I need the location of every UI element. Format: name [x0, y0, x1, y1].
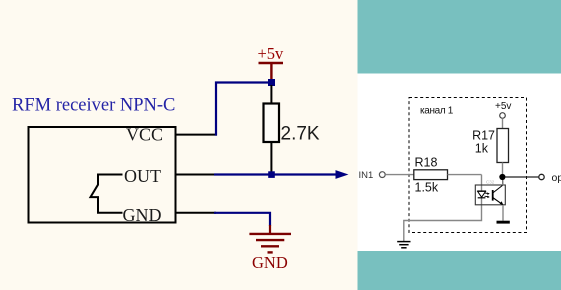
wire corner down to ground (dark red): [269, 225, 271, 234]
node B (OUT junction): [268, 171, 275, 178]
IN1 terminal circle: [379, 172, 385, 178]
value label 2.7K: [281, 124, 320, 145]
optocoupler designator (tiny): [486, 180, 495, 185]
wire collector to node C: [502, 180, 504, 186]
GND net label: [252, 253, 288, 272]
+5v rail bar: [259, 62, 284, 65]
wire resistor R1 down to node B: [270, 142, 272, 175]
svg-text:1.5k: 1.5k: [415, 180, 439, 194]
pin label VCC: [126, 125, 163, 145]
+5v terminal circle: [500, 113, 506, 119]
svg-text:op: op: [552, 172, 561, 184]
arrowhead on OUT wire: [336, 170, 349, 179]
+5v label: [258, 44, 285, 63]
svg-text:OUT: OUT: [124, 166, 161, 186]
ground symbol (left schematic): [249, 234, 291, 253]
+5v label (right): [495, 101, 511, 112]
LED D1 inside optocoupler: [477, 191, 486, 198]
svg-text:+5v: +5v: [495, 101, 511, 112]
label 1.5k: [415, 180, 439, 194]
wire OUT pin (black segment): [176, 174, 216, 176]
resistor R17 body: [497, 129, 509, 163]
wire +5v bar down to node (dark red): [270, 63, 272, 80]
wire +5v terminal to R17: [502, 118, 504, 128]
resistor R1 2.7K body: [264, 104, 280, 143]
pin label GND: [123, 205, 162, 225]
output terminal circle: [539, 174, 544, 179]
svg-text:RFM receiver NPN-C: RFM receiver NPN-C: [12, 96, 175, 116]
emitter ground bar: [497, 221, 510, 224]
teal band top right: [358, 0, 561, 74]
dashed channel box: [409, 98, 527, 233]
svg-text:GND: GND: [123, 205, 162, 225]
ground symbol (right schematic): [397, 242, 410, 248]
label kanal 1: [420, 105, 454, 116]
svg-text:VCC: VCC: [126, 125, 163, 145]
wire node C to output terminal: [505, 176, 539, 178]
svg-text:R18: R18: [415, 155, 438, 169]
label IN1: [359, 170, 374, 181]
node C (collector junction): [499, 174, 505, 180]
wire IN1 to R18: [385, 174, 414, 176]
wire node A down to resistor R1: [270, 85, 272, 104]
title RFM receiver NPN-C: [12, 96, 175, 116]
wire OUT to arrow (navy): [214, 173, 339, 175]
node A (+5v junction): [268, 79, 275, 86]
wire VCC pin to corner (black): [176, 134, 217, 136]
resistor R18 body: [414, 170, 448, 180]
light arrows: [485, 192, 490, 198]
wire emitter down to ground bar: [502, 205, 504, 221]
open-collector switch symbol inside U1: [91, 175, 123, 213]
svg-text:C32: C32: [486, 180, 495, 185]
svg-text:+5v: +5v: [258, 44, 285, 63]
wire corner up to +5v rail (navy): [216, 83, 272, 136]
phototransistor Q1: [493, 185, 504, 205]
svg-text:канал 1: канал 1: [420, 105, 454, 116]
IC box U1 (RFM receiver): [29, 127, 176, 223]
label R17: [472, 129, 495, 143]
label 1k: [475, 142, 489, 156]
wire LED anode down: [481, 175, 483, 191]
wire R17 to node C: [502, 163, 504, 177]
label op: [552, 172, 561, 184]
cream background panel: [0, 0, 358, 290]
pin label OUT: [124, 166, 161, 186]
svg-text:R17: R17: [472, 129, 495, 143]
svg-text:2.7K: 2.7K: [281, 124, 320, 145]
optocoupler U2 box: [475, 185, 505, 205]
wire LED cathode to ground run: [404, 198, 482, 241]
svg-text:GND: GND: [252, 253, 288, 272]
svg-text:1k: 1k: [475, 142, 489, 156]
label R18: [415, 155, 438, 169]
teal band bottom right: [358, 251, 561, 290]
svg-text:IN1: IN1: [359, 170, 374, 181]
wire R18 to LED: [448, 174, 482, 176]
wire GND pin (black segment): [176, 212, 216, 214]
wire GND navy segment to corner: [214, 213, 270, 226]
